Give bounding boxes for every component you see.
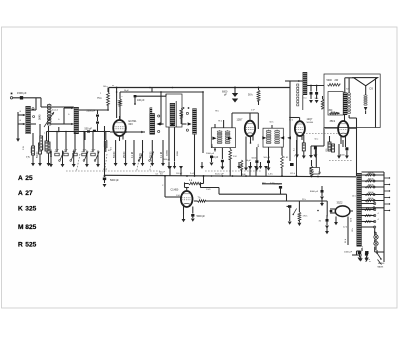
svg-text:110: 110	[366, 208, 369, 210]
svg-text:50 k: 50 k	[248, 94, 253, 97]
svg-text:C1H50: C1H50	[171, 188, 179, 191]
svg-text:30 k: 30 k	[315, 98, 319, 100]
svg-text:R: R	[18, 242, 23, 249]
svg-text:14 k: 14 k	[352, 196, 356, 198]
svg-text:1 M: 1 M	[284, 157, 288, 159]
svg-text:50 pF: 50 pF	[246, 160, 252, 162]
svg-text:64V: 64V	[129, 123, 134, 126]
svg-text:35Z2: 35Z2	[337, 201, 343, 205]
svg-text:12Q7: 12Q7	[307, 118, 314, 121]
svg-text:5000 pF: 5000 pF	[197, 216, 206, 218]
svg-text:8000 pF: 8000 pF	[310, 191, 319, 193]
svg-text:27: 27	[25, 190, 33, 197]
svg-text:25: 25	[25, 175, 33, 182]
svg-text:140 u: 140 u	[103, 86, 108, 88]
svg-text:500 pF: 500 pF	[85, 128, 93, 131]
svg-text:D3: D3	[370, 87, 374, 91]
svg-text:5000 pF: 5000 pF	[110, 179, 119, 182]
svg-text:500000: 500000	[307, 122, 315, 124]
svg-text:22 k: 22 k	[302, 199, 306, 201]
svg-text:4: 4	[378, 213, 379, 215]
svg-text:50 u: 50 u	[315, 139, 319, 141]
svg-text:200 V: 200 V	[368, 185, 374, 187]
svg-text:500 pF: 500 pF	[264, 157, 271, 159]
svg-text:1: 1	[294, 156, 295, 158]
svg-text:1 k: 1 k	[228, 159, 231, 161]
svg-text:325: 325	[25, 206, 36, 213]
svg-text:127: 127	[366, 202, 369, 204]
svg-text:MAINS: MAINS	[378, 262, 385, 265]
svg-text:xx: xx	[112, 85, 114, 87]
svg-text:170 k: 170 k	[303, 216, 308, 218]
svg-text:12B7: 12B7	[237, 119, 243, 122]
svg-text:50000: 50000	[166, 149, 168, 156]
svg-text:5645: 5645	[38, 114, 41, 120]
svg-text:2000 pF: 2000 pF	[163, 159, 171, 161]
svg-text:100 pF: 100 pF	[137, 99, 145, 102]
svg-text:M: M	[18, 224, 24, 231]
svg-text:A: A	[18, 190, 23, 197]
svg-text:5000: 5000	[327, 79, 333, 82]
svg-text:50000: 50000	[37, 151, 39, 158]
svg-text:A: A	[18, 175, 23, 182]
svg-text:1500 pF: 1500 pF	[17, 91, 27, 95]
svg-text:35F2: 35F2	[330, 120, 336, 123]
svg-text:1 HD: 1 HD	[206, 189, 211, 191]
svg-text:2000 pF: 2000 pF	[206, 153, 215, 155]
svg-text:x: x	[44, 133, 45, 135]
svg-text:127 V: 127 V	[368, 192, 374, 194]
svg-text:12 k: 12 k	[352, 228, 354, 232]
svg-text:2-35: 2-35	[23, 146, 25, 150]
svg-text:7,5: 7,5	[26, 155, 30, 159]
svg-text:2000 pF: 2000 pF	[87, 110, 96, 113]
svg-text:525: 525	[25, 242, 36, 249]
svg-text:1 M: 1 M	[233, 156, 237, 158]
svg-text:4: 4	[378, 219, 379, 221]
svg-text:x: x	[122, 96, 123, 98]
svg-text:100 pF: 100 pF	[176, 173, 183, 175]
svg-text:455: 455	[258, 144, 260, 147]
svg-text:825: 825	[25, 224, 36, 231]
svg-text:1 kD: 1 kD	[176, 195, 181, 197]
svg-text:220 V: 220 V	[368, 179, 374, 181]
svg-text:0,5-4,5: 0,5-4,5	[52, 110, 58, 112]
svg-text:455: 455	[212, 144, 214, 147]
svg-text:25000: 25000	[31, 147, 33, 153]
svg-text:50 pF: 50 pF	[124, 90, 130, 92]
svg-text:125 k: 125 k	[290, 173, 295, 175]
svg-text:78 k: 78 k	[215, 111, 219, 113]
svg-text:50000: 50000	[42, 144, 44, 150]
svg-text:240 V: 240 V	[368, 173, 374, 175]
svg-text:110 V: 110 V	[368, 198, 374, 200]
svg-text:50-1e pF: 50-1e pF	[215, 174, 224, 176]
svg-text:75 k: 75 k	[97, 97, 102, 100]
svg-text:500 pF: 500 pF	[159, 171, 166, 173]
svg-text:MAINS: MAINS	[378, 266, 384, 269]
svg-text:1000 pF: 1000 pF	[344, 252, 353, 254]
svg-text:K: K	[18, 206, 23, 213]
svg-text:x: x	[330, 149, 331, 151]
